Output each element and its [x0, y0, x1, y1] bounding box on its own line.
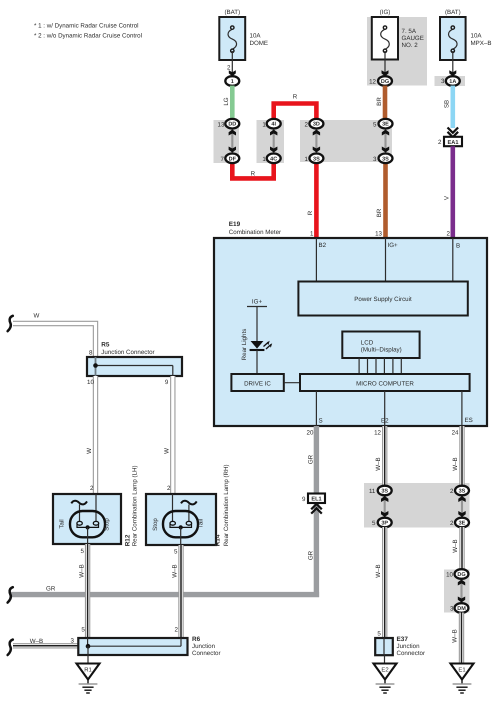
svg-text:W–B: W–B — [452, 629, 459, 642]
svg-text:1: 1 — [262, 156, 266, 163]
svg-text:E2: E2 — [381, 417, 389, 424]
svg-text:ES: ES — [465, 417, 473, 424]
svg-text:4C: 4C — [270, 156, 277, 162]
ground E1 — [451, 664, 474, 680]
wire BR brown upper — [383, 86, 388, 120]
connector pair 4I/4C — [262, 119, 280, 163]
arrowhead down — [449, 70, 456, 76]
svg-text:R5: R5 — [101, 342, 110, 349]
connector pair 3S/3P — [369, 486, 392, 528]
svg-text:DRIVE IC: DRIVE IC — [244, 381, 271, 388]
wire W-B 3P to E37 — [382, 527, 387, 638]
svg-text:Junction: Junction — [397, 643, 421, 650]
fuse 10A MPX-B (BAT) — [440, 9, 491, 60]
svg-text:LCD: LCD — [361, 340, 374, 347]
svg-text:Tail: Tail — [197, 519, 204, 528]
svg-text:DG: DG — [457, 572, 465, 578]
R5 internal bus — [96, 365, 173, 367]
svg-text:3S: 3S — [382, 156, 389, 162]
R6 internal — [87, 638, 89, 646]
arrowhead down — [229, 70, 236, 76]
wire fuse3 to oval 1A — [452, 51, 454, 77]
svg-text:IG+: IG+ — [252, 299, 263, 306]
svg-text:E1: E1 — [458, 667, 465, 674]
junction connector R5 box — [87, 357, 182, 376]
junction block gray box 2 (4I/4C) — [257, 120, 285, 163]
svg-text:MPX–B: MPX–B — [471, 40, 492, 47]
svg-text:E2: E2 — [381, 667, 388, 674]
DRIVE IC box — [231, 374, 283, 391]
svg-text:1: 1 — [262, 121, 266, 128]
junction block gray box 3 (3D/3S/3E/3S) — [300, 120, 392, 162]
svg-text:W–B: W–B — [172, 564, 179, 577]
chevrons EL1 — [311, 504, 322, 509]
svg-text:7. 5A: 7. 5A — [402, 28, 417, 35]
gray box right pair 3S/3P 3S/3E — [364, 483, 470, 528]
svg-text:3S: 3S — [381, 489, 388, 495]
svg-text:BR: BR — [376, 97, 383, 106]
svg-text:BR: BR — [376, 208, 383, 217]
connector EA1 — [444, 137, 462, 146]
power supply circuit box — [298, 282, 467, 316]
svg-text:2: 2 — [450, 488, 454, 495]
squiggle W left — [8, 316, 13, 331]
svg-text:R14: R14 — [215, 534, 222, 546]
svg-text:2: 2 — [90, 485, 94, 492]
wire W-B lamp RH down — [178, 545, 183, 638]
gray box DG/DM — [444, 570, 470, 613]
connector EL1 — [308, 494, 325, 504]
svg-text:DOME: DOME — [250, 40, 269, 47]
svg-text:DD: DD — [228, 122, 236, 128]
gray box fuse IG — [367, 17, 427, 86]
wire W-B DM to ground E1 — [459, 613, 464, 664]
wire R red bottom loop — [232, 163, 273, 179]
svg-text:3: 3 — [450, 606, 454, 613]
link drive ic to micro computer — [284, 382, 300, 384]
svg-text:W–B: W–B — [375, 457, 382, 470]
rear combination lamp RH R14 — [146, 494, 216, 545]
connector pair 3D/3S — [304, 119, 323, 163]
svg-text:2: 2 — [167, 485, 171, 492]
svg-text:Power Supply Circuit: Power Supply Circuit — [354, 296, 412, 303]
svg-text:1: 1 — [231, 79, 234, 85]
lcd to micro lines — [358, 358, 360, 374]
internal wires bottom — [315, 391, 317, 426]
wire BR brown to meter — [383, 162, 388, 238]
svg-text:Connector: Connector — [192, 650, 221, 657]
connector pair DD/DF — [218, 119, 240, 163]
fuse 10A DOME (BAT) — [219, 9, 268, 60]
svg-text:5: 5 — [377, 630, 381, 637]
svg-text:GR: GR — [46, 586, 56, 593]
svg-text:1A: 1A — [449, 79, 456, 85]
ground E2 — [384, 655, 386, 663]
internal wires top — [315, 238, 317, 282]
svg-text:(Multi–Display): (Multi–Display) — [361, 347, 402, 354]
svg-text:2: 2 — [438, 139, 442, 146]
wire fuse2 to oval DG — [384, 51, 386, 77]
gray box behind 1A oval — [435, 76, 466, 86]
wire W-B lamp LH down — [85, 544, 90, 638]
svg-text:E19: E19 — [229, 221, 241, 228]
svg-text:12: 12 — [369, 78, 376, 85]
junction block gray box 1 (DD/DF) — [214, 120, 240, 163]
oval DG — [378, 76, 392, 86]
wire GR vertical from S — [314, 426, 319, 494]
wire W-B from ES — [459, 426, 464, 486]
svg-text:IG+: IG+ — [388, 242, 399, 249]
svg-text:Tail: Tail — [59, 519, 66, 528]
svg-text:5: 5 — [373, 121, 377, 128]
svg-text:GAUGE: GAUGE — [402, 35, 424, 42]
connector pair DG/DM — [446, 569, 468, 613]
chevrons EA1 — [448, 128, 459, 133]
svg-text:Connector: Connector — [397, 650, 426, 657]
svg-text:B2: B2 — [319, 242, 327, 249]
svg-text:R: R — [251, 170, 256, 177]
svg-text:20: 20 — [307, 430, 314, 437]
LCD box — [342, 332, 419, 359]
bulb R12 — [70, 511, 105, 537]
oval 1 — [225, 76, 239, 86]
svg-text:(BAT): (BAT) — [224, 9, 240, 16]
MICRO COMPUTER box — [300, 374, 470, 391]
wire through R5 — [95, 357, 97, 376]
bulb R14 — [163, 511, 198, 537]
connector pair 3E/3S — [373, 119, 393, 163]
svg-text:12: 12 — [374, 430, 381, 437]
svg-text:Rear Lights: Rear Lights — [241, 329, 248, 361]
squiggle W-B left — [8, 640, 13, 655]
svg-text:2: 2 — [447, 231, 451, 238]
svg-text:GR: GR — [308, 550, 315, 560]
oval 1A — [446, 76, 460, 86]
svg-text:10: 10 — [446, 572, 453, 579]
svg-text:3E: 3E — [382, 122, 389, 128]
svg-text:R6: R6 — [192, 636, 201, 643]
svg-text:W: W — [34, 312, 40, 319]
svg-text:5: 5 — [81, 627, 85, 634]
svg-text:E37: E37 — [397, 636, 409, 643]
wire GR horizontal bus — [10, 592, 319, 597]
svg-text:3E: 3E — [459, 521, 466, 527]
wire fuse1 to oval 1 — [231, 51, 233, 77]
svg-text:(IG): (IG) — [380, 9, 391, 16]
svg-text:7: 7 — [221, 156, 225, 163]
tail squiggle — [71, 501, 87, 505]
svg-text:2: 2 — [175, 627, 179, 634]
svg-text:4I: 4I — [271, 122, 276, 128]
svg-text:3D: 3D — [313, 122, 320, 128]
svg-text:Stop: Stop — [104, 518, 111, 531]
svg-text:3: 3 — [373, 156, 377, 163]
wire W-B 3E to DG — [459, 527, 464, 570]
svg-text:* 1 : w/ Dynamic Radar Cruise: * 1 : w/ Dynamic Radar Cruise Control — [34, 23, 139, 30]
svg-text:24: 24 — [452, 430, 459, 437]
svg-text:DF: DF — [229, 156, 237, 162]
svg-text:W–B: W–B — [452, 539, 459, 552]
svg-text:3S: 3S — [459, 489, 466, 495]
svg-text:2: 2 — [304, 121, 308, 128]
svg-text:9: 9 — [165, 379, 169, 386]
svg-text:R12: R12 — [124, 534, 131, 546]
svg-text:EL1: EL1 — [311, 497, 321, 503]
svg-text:3S: 3S — [313, 156, 320, 162]
svg-text:W–B: W–B — [452, 457, 459, 470]
svg-text:Junction: Junction — [192, 643, 216, 650]
svg-text:DM: DM — [457, 606, 466, 612]
svg-text:W: W — [86, 448, 93, 454]
wire W to lamp RH side — [170, 376, 175, 494]
wire R red top loop — [274, 104, 317, 120]
rear combination lamp LH R12 — [53, 494, 121, 544]
svg-text:3: 3 — [441, 78, 445, 85]
wire W-B from E2 — [382, 426, 387, 486]
svg-text:GR: GR — [308, 454, 315, 464]
svg-text:1: 1 — [310, 231, 314, 238]
svg-text:Junction Connector: Junction Connector — [101, 349, 154, 356]
svg-text:EA1: EA1 — [448, 140, 459, 146]
svg-text:(BAT): (BAT) — [445, 9, 461, 16]
wire SB skyblue — [450, 86, 455, 128]
svg-text:Combination Meter: Combination Meter — [229, 229, 281, 236]
svg-text:MICRO COMPUTER: MICRO COMPUTER — [356, 381, 414, 388]
svg-text:W: W — [164, 448, 171, 454]
svg-text:R: R — [307, 210, 314, 215]
squiggle GR left — [8, 587, 13, 602]
ground R1 — [87, 655, 89, 664]
svg-text:W–B: W–B — [375, 564, 382, 577]
wire LG green — [230, 86, 235, 120]
wire V violet — [450, 146, 455, 238]
svg-text:R1: R1 — [84, 667, 92, 674]
svg-text:10A: 10A — [471, 33, 483, 40]
LED rear lights — [251, 341, 264, 349]
svg-text:13: 13 — [218, 121, 225, 128]
svg-text:LG: LG — [223, 97, 230, 105]
svg-text:R: R — [293, 94, 298, 101]
svg-text:S: S — [319, 417, 323, 424]
svg-text:3P: 3P — [381, 521, 388, 527]
connector pair 3S/3E right — [450, 486, 469, 528]
tail squiggle RH — [181, 501, 197, 505]
svg-text:9: 9 — [302, 496, 306, 503]
fuse 7.5A GAUGE NO.2 (IG) — [372, 9, 424, 60]
svg-text:5: 5 — [81, 548, 85, 555]
svg-text:Stop: Stop — [152, 518, 159, 531]
wire R red to meter — [314, 162, 319, 238]
svg-text:* 2 : w/o Dynamic Radar Cruise: * 2 : w/o Dynamic Radar Cruise Control — [34, 33, 142, 40]
svg-text:B: B — [456, 243, 460, 250]
svg-text:Rear Combination Lamp (RH): Rear Combination Lamp (RH) — [223, 464, 230, 546]
svg-text:10: 10 — [87, 379, 94, 386]
svg-text:1: 1 — [304, 156, 308, 163]
combination meter box E19 — [214, 238, 487, 426]
svg-text:DG: DG — [381, 79, 389, 85]
svg-text:W–B: W–B — [78, 564, 85, 577]
svg-text:Rear Combination Lamp (LH): Rear Combination Lamp (LH) — [132, 465, 139, 546]
svg-text:5: 5 — [174, 548, 178, 555]
junction dot R5 — [93, 363, 98, 368]
svg-text:2: 2 — [450, 520, 454, 527]
svg-text:10A: 10A — [250, 33, 262, 40]
svg-text:5: 5 — [372, 520, 376, 527]
svg-text:13: 13 — [375, 231, 382, 238]
svg-text:NO. 2: NO. 2 — [402, 42, 419, 49]
svg-text:11: 11 — [369, 488, 376, 495]
junction connector R6 box — [78, 638, 187, 655]
arrowhead down — [382, 70, 389, 76]
svg-text:SB: SB — [443, 100, 450, 108]
svg-text:8: 8 — [89, 350, 93, 357]
